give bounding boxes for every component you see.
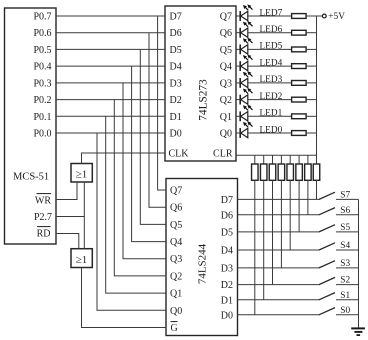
resistor R0 (pull-up for S0)	[252, 164, 258, 180]
wire resistor to +5V bus	[307, 99, 317, 101]
resistor R6 (pull-up for S6)	[305, 164, 312, 180]
wire resistor to +5V bus	[307, 48, 317, 50]
wire +5V rail to pull-up resistor R0	[254, 155, 256, 164]
wire resistor to +5V bus	[307, 115, 317, 117]
svg-text:D2: D2	[170, 95, 182, 106]
pin label WR (active low)	[35, 194, 51, 207]
wire switch S3 to ground bus	[336, 267, 359, 269]
resistor R9 (LED1 series)	[292, 114, 307, 119]
wire switch S5 to ground bus	[336, 231, 359, 233]
svg-text:D7: D7	[170, 12, 182, 23]
switch S6	[319, 208, 335, 215]
LED LED1	[240, 105, 252, 121]
LED LED3	[240, 72, 252, 88]
wire LED2 to resistor	[248, 99, 291, 101]
switch S7	[319, 192, 335, 199]
wire P0.3 branch down to 74LS244 Q3	[123, 83, 166, 259]
pin label RD (active low)	[37, 227, 51, 240]
wire ground bus vertical	[358, 200, 360, 329]
wire P2.7 to or-gate U4 input	[56, 182, 84, 217]
wire switch S7 to ground bus	[336, 198, 359, 200]
svg-text:Q0: Q0	[220, 129, 232, 140]
wire or-gate U4 output to CLK	[82, 153, 166, 164]
resistor R12 (LED4 series)	[292, 64, 307, 69]
+5V supply terminal	[317, 12, 346, 22]
wire switch S0 to ground bus	[336, 314, 359, 316]
svg-text:RD: RD	[37, 229, 51, 240]
resistor R11 (LED3 series)	[292, 81, 307, 86]
wire +5V vertical bus	[316, 16, 318, 155]
wire pull-up R1 down to D1 line	[263, 180, 265, 299]
wire switch S2 to ground bus	[336, 284, 359, 286]
svg-text:D6: D6	[221, 210, 233, 221]
wire LED3 to resistor	[248, 82, 291, 84]
svg-text:D0: D0	[170, 129, 182, 140]
wire P0.0 branch down to 74LS244 Q0	[97, 133, 166, 310]
svg-text:Q5: Q5	[220, 45, 232, 56]
svg-text:Q0: Q0	[170, 306, 182, 317]
svg-text:LED7: LED7	[260, 8, 283, 18]
wire P0.2 branch down to 74LS244 Q2	[114, 100, 166, 276]
svg-text:Q7: Q7	[170, 186, 182, 197]
svg-text:D1: D1	[170, 112, 182, 123]
wire pull-up R3 down to D3 line	[280, 180, 282, 268]
svg-text:D3: D3	[221, 263, 233, 274]
svg-text:P0.1: P0.1	[33, 112, 51, 123]
wire +5V rail to pull-up resistor R2	[272, 155, 274, 164]
svg-text:D0: D0	[221, 310, 233, 321]
switch S3	[319, 261, 335, 268]
resistor R10 (LED2 series)	[292, 97, 307, 102]
wire switch S1 to ground bus	[336, 299, 359, 301]
wire +5V rail to pull-up resistor R4	[289, 155, 291, 164]
LED LED0	[240, 122, 252, 138]
wire 74LS244 D1 to switch S1	[238, 299, 320, 301]
wire P0.1 branch down to 74LS244 Q1	[106, 116, 166, 293]
latch U1 74LS273	[165, 6, 236, 161]
wire 74LS244 D4 to switch S4	[238, 249, 320, 251]
svg-text:P0.2: P0.2	[33, 95, 51, 106]
wire LED7 to resistor	[248, 15, 291, 17]
wire P0.2 to 74LS273 D2	[56, 99, 165, 101]
svg-text:≥1: ≥1	[76, 169, 88, 181]
wire pull-up R0 down to D0 line	[254, 180, 256, 314]
wire resistor to +5V bus	[307, 82, 317, 84]
resistor R2 (pull-up for S2)	[269, 164, 276, 180]
wire pull-up R7 down to D7 line	[316, 180, 318, 199]
switch S0	[319, 308, 335, 315]
svg-text:MCS-51: MCS-51	[13, 172, 49, 183]
LED LED4	[240, 55, 252, 71]
svg-text:P0.4: P0.4	[33, 62, 51, 73]
svg-text:CLK: CLK	[169, 148, 190, 159]
svg-text:≥1: ≥1	[76, 254, 88, 266]
wire P0.4 branch down to 74LS244 Q4	[132, 66, 166, 242]
switch S2	[319, 277, 335, 284]
wire CLR to +5V rail	[236, 154, 317, 156]
svg-text:P0.0: P0.0	[33, 129, 51, 140]
switch S5	[319, 225, 335, 232]
wire P0.6 to 74LS273 D6	[56, 32, 165, 34]
wire switch S6 to ground bus	[336, 214, 359, 216]
svg-text:Q7: Q7	[220, 12, 232, 23]
svg-text:WR: WR	[35, 196, 51, 207]
svg-text:P0.7: P0.7	[33, 12, 51, 23]
svg-text:G: G	[171, 323, 178, 334]
wire P0.5 to 74LS273 D5	[56, 48, 165, 50]
svg-text:D4: D4	[221, 246, 233, 257]
svg-text:LED5: LED5	[260, 42, 283, 52]
switch S1	[319, 293, 335, 300]
svg-text:P0.5: P0.5	[33, 45, 51, 56]
wire 74LS273 Q6 to LED6	[236, 32, 240, 34]
wire P0.5 branch down to 74LS244 Q5	[140, 49, 166, 224]
resistor R15 (LED7 series)	[292, 14, 307, 19]
resistor R7 (pull-up for S7)	[313, 164, 320, 180]
wire LED4 to resistor	[248, 65, 291, 67]
resistor R4 (pull-up for S4)	[287, 164, 294, 180]
svg-text:Q3: Q3	[220, 78, 232, 89]
wire P0.7 branch down to 74LS244 Q7	[158, 16, 166, 190]
wire +5V rail to pull-up resistor R7	[316, 155, 318, 164]
svg-text:74LS244: 74LS244	[197, 243, 209, 284]
svg-text:Q1: Q1	[170, 289, 182, 300]
wire resistor to +5V bus	[307, 15, 317, 17]
wire or-gate U5 output to G of 74LS244	[82, 268, 167, 328]
wire LED5 to resistor	[248, 48, 291, 50]
or-gate U5 (>=1) for G enable	[71, 249, 92, 268]
svg-text:CLR: CLR	[213, 148, 233, 159]
wire P0.6 branch down to 74LS244 Q6	[149, 33, 166, 208]
wire P0.0 to 74LS273 D0	[56, 132, 165, 134]
svg-text:Q1: Q1	[220, 112, 232, 123]
svg-text:Q4: Q4	[170, 237, 182, 248]
wire LED0 to resistor	[248, 132, 291, 134]
svg-text:LED4: LED4	[260, 58, 283, 68]
pin label G (active low, 74LS244)	[171, 322, 178, 334]
svg-text:D4: D4	[170, 62, 182, 73]
LED LED2	[240, 89, 252, 105]
svg-text:LED6: LED6	[260, 25, 283, 35]
wire pull-up R4 down to D4 line	[289, 180, 291, 250]
wire +5V rail to pull-up resistor R6	[307, 155, 309, 164]
wire resistor to +5V bus	[307, 65, 317, 67]
resistor R14 (LED6 series)	[292, 30, 307, 35]
svg-text:LED3: LED3	[260, 75, 283, 85]
wire 74LS273 Q2 to LED2	[236, 99, 240, 101]
wire pull-up R5 down to D5 line	[298, 180, 300, 232]
wire WR to or-gate U4 input	[56, 182, 77, 200]
svg-text:+5V: +5V	[328, 12, 345, 22]
wire pull-up R6 down to D6 line	[307, 180, 309, 215]
svg-text:D5: D5	[170, 45, 182, 56]
svg-text:LED2: LED2	[260, 92, 283, 102]
svg-text:LED0: LED0	[260, 125, 283, 135]
wire P0.1 to 74LS273 D1	[56, 115, 165, 117]
wire pull-up R2 down to D2 line	[272, 180, 274, 284]
wire resistor to +5V bus	[307, 32, 317, 34]
svg-text:D7: D7	[221, 195, 233, 206]
svg-text:D1: D1	[221, 295, 233, 306]
wire 74LS244 D2 to switch S2	[238, 284, 320, 286]
svg-text:Q6: Q6	[170, 203, 182, 214]
wire switch S4 to ground bus	[336, 249, 359, 251]
wire P0.4 to 74LS273 D4	[56, 65, 165, 67]
wire 74LS273 Q3 to LED3	[236, 82, 240, 84]
resistor R3 (pull-up for S3)	[278, 164, 285, 180]
resistor R8 (LED0 series)	[292, 131, 307, 136]
wire RD to or-gate U5 input	[56, 234, 79, 249]
wire 74LS273 Q7 to LED7	[236, 15, 240, 17]
wire resistor to +5V bus	[307, 132, 317, 134]
wire P0.7 to 74LS273 D7	[56, 15, 165, 17]
svg-text:Q4: Q4	[220, 62, 232, 73]
wire 74LS244 D0 to switch S0	[238, 314, 320, 316]
or-gate U4 (>=1) for CLK	[71, 164, 92, 183]
resistor R5 (pull-up for S5)	[296, 164, 303, 180]
wire +5V rail to pull-up resistor R3	[280, 155, 282, 164]
wire +5V rail to pull-up resistor R5	[298, 155, 300, 164]
svg-text:P0.3: P0.3	[33, 78, 51, 89]
svg-text:P2.7: P2.7	[34, 212, 52, 223]
resistor R13 (LED5 series)	[292, 47, 307, 52]
wire 74LS273 Q0 to LED0	[236, 132, 240, 134]
buffer U2 74LS244	[166, 179, 238, 336]
LED LED6	[240, 22, 252, 38]
svg-text:Q3: Q3	[170, 254, 182, 265]
wire LED1 to resistor	[248, 115, 291, 117]
svg-text:P0.6: P0.6	[33, 28, 51, 39]
svg-text:Q2: Q2	[220, 95, 232, 106]
wire P0.3 to 74LS273 D3	[56, 82, 165, 84]
LED LED5	[240, 38, 252, 54]
wire 74LS244 D3 to switch S3	[238, 267, 320, 269]
wire +5V rail to pull-up resistor R1	[263, 155, 265, 164]
microcontroller U3 MCS-51	[5, 8, 57, 244]
svg-text:D6: D6	[170, 28, 182, 39]
svg-text:Q2: Q2	[170, 271, 182, 282]
svg-text:D3: D3	[170, 78, 182, 89]
wire 74LS244 D7 to switch S7	[238, 198, 320, 200]
svg-text:74LS273: 74LS273	[198, 79, 210, 121]
svg-text:D2: D2	[221, 280, 233, 291]
svg-text:D5: D5	[221, 227, 233, 238]
svg-text:LED1: LED1	[260, 109, 283, 119]
ground	[351, 328, 365, 335]
wire 74LS273 Q4 to LED4	[236, 65, 240, 67]
wire 74LS273 Q5 to LED5	[236, 48, 240, 50]
resistor R1 (pull-up for S1)	[260, 164, 267, 180]
wire LED6 to resistor	[248, 32, 291, 34]
wire 74LS273 Q1 to LED1	[236, 115, 240, 117]
wire P2.7 branch to or-gate U5 input	[83, 217, 85, 249]
switch S4	[319, 243, 335, 250]
svg-text:Q5: Q5	[170, 220, 182, 231]
LED LED7	[240, 5, 252, 21]
wire 74LS244 D6 to switch S6	[238, 214, 320, 216]
svg-text:Q6: Q6	[220, 28, 232, 39]
wire 74LS244 D5 to switch S5	[238, 231, 320, 233]
